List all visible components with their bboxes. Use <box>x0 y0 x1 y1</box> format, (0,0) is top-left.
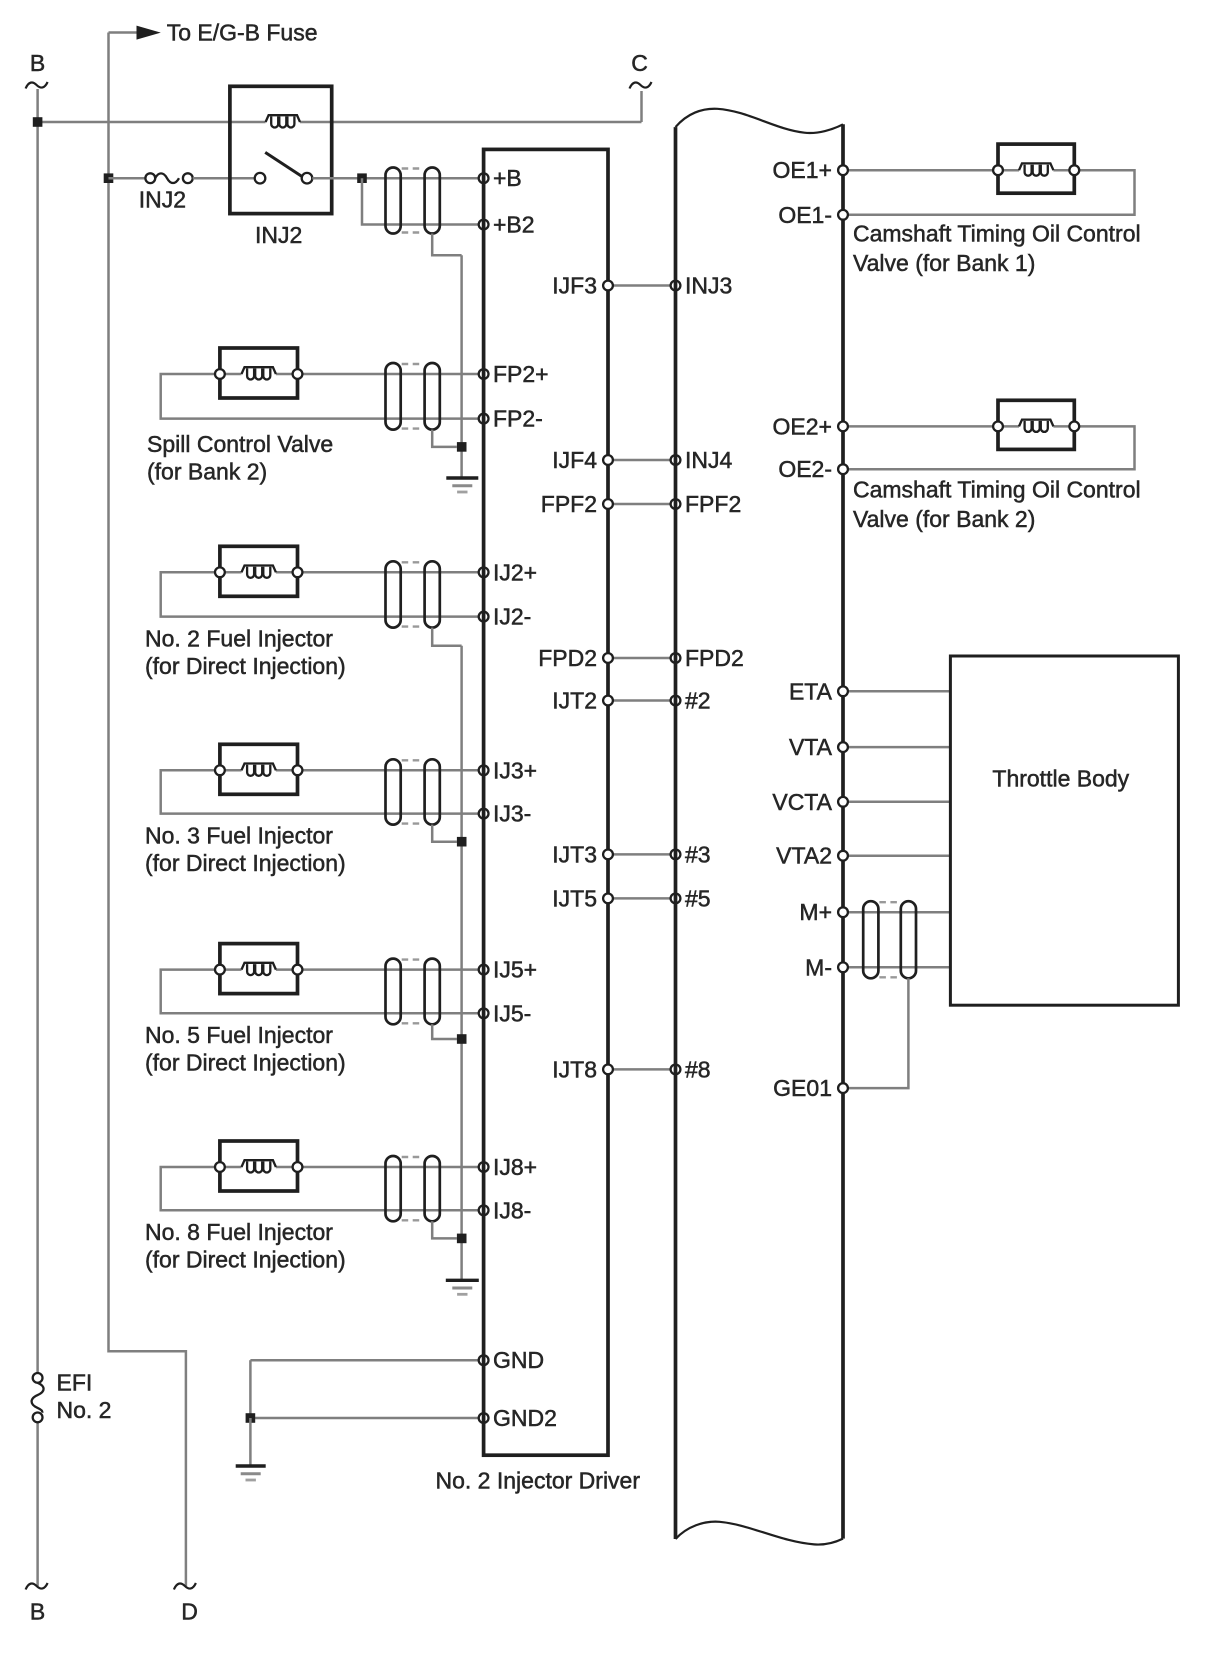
svg-text:B: B <box>30 50 45 76</box>
pin +B <box>479 173 489 183</box>
break symbol C <box>630 82 652 89</box>
injector 3 terminal left <box>215 765 225 775</box>
shield bus to ground 2 <box>460 646 463 1281</box>
wire IJT2 to #2 <box>608 699 676 702</box>
svg-text:VCTA: VCTA <box>772 789 832 815</box>
fuse INJ2 <box>145 173 192 183</box>
svg-text:#8: #8 <box>685 1056 711 1082</box>
wire GND2 <box>250 1417 481 1420</box>
svg-text:No. 8 Fuel Injector: No. 8 Fuel Injector <box>145 1219 333 1245</box>
svg-text:INJ4: INJ4 <box>685 447 733 473</box>
shield dashes <box>402 169 424 233</box>
wire injector 5 negative <box>161 970 479 1014</box>
wire B vertical (upper) <box>36 89 39 1373</box>
injector 5 terminal left <box>215 965 225 975</box>
junction dot shield IJ3 <box>457 837 467 847</box>
svg-text:(for Bank 2): (for Bank 2) <box>147 459 267 485</box>
svg-text:GE01: GE01 <box>773 1075 832 1101</box>
svg-text:IJ3-: IJ3- <box>493 801 531 827</box>
pin INJ4 (ECU) <box>671 455 681 465</box>
pin VCTA <box>838 797 848 807</box>
shield ovals IJ2 pair <box>386 561 440 627</box>
svg-text:(for Direct Injection): (for Direct Injection) <box>145 1247 346 1273</box>
wire main ignition feed (right) <box>300 121 642 124</box>
svg-text:ETA: ETA <box>789 678 833 704</box>
shield drain IJ2 pair <box>432 628 461 646</box>
svg-text:INJ3: INJ3 <box>685 273 732 299</box>
wire to E/G-B fuse and D <box>109 33 186 1587</box>
ground (GND/GND2) <box>236 1466 266 1480</box>
wire GND <box>250 1359 481 1362</box>
pin IJT8 <box>603 1065 613 1075</box>
svg-text:+B2: +B2 <box>493 212 535 238</box>
pin IJ5- <box>479 1008 489 1018</box>
spill valve coil <box>242 367 276 379</box>
pin GE01 <box>838 1083 848 1093</box>
break symbol B top <box>26 82 48 89</box>
svg-text:IJT3: IJT3 <box>552 841 597 867</box>
junction dot GND <box>246 1413 256 1423</box>
ground (injector shields) <box>446 1280 479 1294</box>
svg-text:FP2+: FP2+ <box>493 361 549 387</box>
pin GND2 <box>479 1413 489 1423</box>
pin #8 (ECU) <box>671 1065 681 1075</box>
svg-text:IJF4: IJF4 <box>552 447 597 473</box>
pin IJ8- <box>479 1205 489 1215</box>
pin IJ2- <box>479 612 489 622</box>
wire M- <box>843 966 950 969</box>
wire OE1+ <box>843 169 1019 172</box>
wire OE1- return <box>843 170 1135 215</box>
shield drain M pair to GE01 <box>848 978 908 1088</box>
shield bus to ground 1 <box>460 255 463 478</box>
wire IJT5 to #5 <box>608 897 676 900</box>
pin IJ2+ <box>479 567 489 577</box>
svg-text:#3: #3 <box>685 841 711 867</box>
svg-text:(for Direct Injection): (for Direct Injection) <box>145 850 346 876</box>
svg-text:M-: M- <box>805 954 832 980</box>
shield drain IJ5 pair <box>432 1024 457 1039</box>
shield dashes <box>402 364 424 429</box>
wire to +B2 <box>362 178 479 224</box>
shield ovals IJ3 pair <box>386 759 440 824</box>
wire GND down <box>249 1360 252 1418</box>
wire injector 8 interior left <box>220 1166 242 1169</box>
svg-text:VTA: VTA <box>789 734 833 760</box>
pin IJF4 <box>603 455 613 465</box>
pin IJF3 <box>603 281 613 291</box>
svg-text:(for Direct Injection): (for Direct Injection) <box>145 1050 346 1076</box>
svg-text:No. 2 Injector Driver: No. 2 Injector Driver <box>436 1467 641 1493</box>
shield dashes <box>402 960 424 1024</box>
valve 2 terminal right <box>1069 422 1079 432</box>
wire IJF3 to INJ3 <box>608 284 676 287</box>
injector 2 coil <box>242 566 276 578</box>
svg-text:Spill Control Valve: Spill Control Valve <box>147 431 333 457</box>
pin INJ3 (ECU) <box>671 281 681 291</box>
pin VTA2 <box>838 851 848 861</box>
wire injector 8 positive <box>276 1166 479 1169</box>
pin IJ5+ <box>479 965 489 975</box>
svg-text:OE1-: OE1- <box>778 202 832 228</box>
wire VTA2 <box>843 854 950 857</box>
svg-text:OE2-: OE2- <box>778 456 832 482</box>
valve 1 terminal left <box>993 165 1003 175</box>
injector 5 terminal right <box>293 965 303 975</box>
shield dashes <box>402 562 424 626</box>
svg-text:+B: +B <box>493 165 522 191</box>
svg-text:IJF3: IJF3 <box>552 273 597 299</box>
svg-text:Throttle Body: Throttle Body <box>992 766 1129 792</box>
svg-text:IJT2: IJT2 <box>552 688 597 714</box>
svg-text:FPD2: FPD2 <box>685 645 744 671</box>
wire FPF2 to FPF2 <box>608 503 676 506</box>
svg-text:INJ2: INJ2 <box>255 222 302 248</box>
junction dot +B branch <box>357 173 367 183</box>
relay switch contact right <box>302 173 313 184</box>
pin IJ3+ <box>479 765 489 775</box>
wire arrow stub <box>109 31 138 34</box>
svg-text:IJT5: IJT5 <box>552 885 597 911</box>
svg-text:INJ2: INJ2 <box>139 187 186 213</box>
pin FP2- <box>479 414 489 424</box>
wire C stub <box>640 91 643 122</box>
wire IJF4 to INJ4 <box>608 459 676 462</box>
svg-text:VTA2: VTA2 <box>776 843 832 869</box>
solenoid No. 3 Fuel Injector box <box>220 744 298 794</box>
wire injector 3 negative <box>161 770 479 813</box>
svg-text:(for Direct Injection): (for Direct Injection) <box>145 653 346 679</box>
pin VTA <box>838 742 848 752</box>
svg-text:EFI: EFI <box>57 1369 93 1395</box>
pin IJT5 <box>603 894 613 904</box>
wire injector 8 negative <box>161 1167 479 1210</box>
shield drain FP2 pair <box>432 430 457 447</box>
pin FPF2 (ECU) <box>671 499 681 509</box>
wire FPD2 to FPD2 <box>608 657 676 660</box>
svg-text:D: D <box>181 1599 198 1625</box>
wire to INJ2 fuse <box>109 177 146 180</box>
wire fuse to relay switch <box>193 177 255 180</box>
pin M+ <box>838 907 848 917</box>
wire spill valve negative <box>161 374 479 419</box>
pin ETA <box>838 686 848 696</box>
wire injector 3 interior left <box>220 769 242 772</box>
wire spill valve to FP2+ <box>276 373 479 376</box>
ECM left edge <box>674 127 678 1539</box>
svg-text:IJT8: IJT8 <box>552 1056 597 1082</box>
svg-text:Valve (for Bank 1): Valve (for Bank 1) <box>853 250 1035 276</box>
svg-text:No. 3 Fuel Injector: No. 3 Fuel Injector <box>145 822 333 848</box>
svg-text:Camshaft Timing Oil Control: Camshaft Timing Oil Control <box>853 220 1141 246</box>
break symbol D <box>174 1583 196 1590</box>
wire OE2- return <box>843 426 1135 469</box>
camshaft valve 2 coil <box>1019 420 1053 432</box>
svg-text:IJ8-: IJ8- <box>493 1197 531 1223</box>
svg-text:To E/G-B Fuse: To E/G-B Fuse <box>167 20 318 46</box>
svg-text:M+: M+ <box>799 899 832 925</box>
svg-text:IJ2-: IJ2- <box>493 604 531 630</box>
solenoid No. 5 Fuel Injector box <box>220 944 298 994</box>
junction dot shield IJ8 <box>457 1234 467 1244</box>
injector 2 terminal left <box>215 567 225 577</box>
svg-text:No. 2: No. 2 <box>57 1397 112 1423</box>
junction dot B feed <box>33 117 43 127</box>
pin #3 (ECU) <box>671 850 681 860</box>
pin OE2- <box>838 464 848 474</box>
solenoid Camshaft Timing Oil Control Valve (Bank 1) box <box>998 144 1074 193</box>
svg-text:Valve (for Bank 2): Valve (for Bank 2) <box>853 506 1035 532</box>
svg-text:B: B <box>30 1599 45 1625</box>
svg-text:FPF2: FPF2 <box>685 491 741 517</box>
shield dashes <box>402 1157 424 1220</box>
wire valve 2 interior right <box>1053 425 1074 428</box>
pin GND <box>479 1355 489 1365</box>
injector 2 terminal right <box>293 567 303 577</box>
solenoid No. 2 Fuel Injector box <box>220 546 298 596</box>
solenoid Spill Control Valve box <box>220 348 298 398</box>
relay switch contact left <box>255 173 266 184</box>
svg-text:No. 2 Fuel Injector: No. 2 Fuel Injector <box>145 625 333 651</box>
wire to chassis ground <box>249 1418 252 1466</box>
shield drain IJ3 pair <box>432 825 457 842</box>
solenoid Camshaft Timing Oil Control Valve (Bank 2) box <box>998 400 1074 449</box>
break symbol B bottom <box>26 1583 48 1590</box>
spill valve terminal left <box>215 369 225 379</box>
shield ovals M pair <box>863 901 916 978</box>
shield ovals IJ5 pair <box>386 959 440 1025</box>
wire injector 3 positive <box>276 769 479 772</box>
injector 8 terminal left <box>215 1162 225 1172</box>
svg-text:#2: #2 <box>685 688 711 714</box>
relay INJ2 box <box>230 86 332 213</box>
relay INJ2 switch blade <box>265 152 302 176</box>
wire IJT8 to #8 <box>608 1068 676 1071</box>
shield drain +B pair <box>432 234 461 256</box>
pin IJT3 <box>603 850 613 860</box>
shield dashes <box>402 760 424 823</box>
svg-text:GND: GND <box>493 1347 544 1373</box>
pin FPF2 <box>603 499 613 509</box>
pin IJ3- <box>479 809 489 819</box>
svg-text:FP2-: FP2- <box>493 406 543 432</box>
pin OE2+ <box>838 422 848 432</box>
svg-text:IJ3+: IJ3+ <box>493 757 537 783</box>
wire OE2+ <box>843 425 1019 428</box>
injector 3 terminal right <box>293 765 303 775</box>
wire injector 2 positive <box>276 571 479 574</box>
camshaft valve 1 coil <box>1019 163 1053 175</box>
wire main ignition feed (left) <box>38 121 266 124</box>
arrow head <box>137 26 161 40</box>
spill valve terminal right <box>293 369 303 379</box>
wire relay to +B <box>312 177 479 180</box>
pin #2 (ECU) <box>671 696 681 706</box>
ground (shield FP2/+B) <box>446 478 478 492</box>
pin M- <box>838 962 848 972</box>
shield ovals IJ8 pair <box>386 1156 440 1221</box>
svg-text:No. 5 Fuel Injector: No. 5 Fuel Injector <box>145 1022 333 1048</box>
ECM torn top edge <box>676 109 844 133</box>
pin FP2+ <box>479 369 489 379</box>
svg-text:IJ2+: IJ2+ <box>493 559 537 585</box>
relay INJ2 coil <box>266 115 300 127</box>
Throttle Body box <box>950 656 1178 1005</box>
svg-text:OE1+: OE1+ <box>773 157 832 183</box>
pin #5 (ECU) <box>671 894 681 904</box>
pin OE1- <box>838 210 848 220</box>
wire injector 5 positive <box>276 968 479 971</box>
wire valve 1 interior right <box>1053 169 1074 172</box>
wire VTA <box>843 746 950 749</box>
junction dot shield IJ5 <box>457 1034 467 1044</box>
valve 2 terminal left <box>993 422 1003 432</box>
injector 5 coil <box>242 963 276 975</box>
injector 8 coil <box>242 1160 276 1172</box>
svg-text:FPF2: FPF2 <box>541 491 597 517</box>
wire VCTA <box>843 801 950 804</box>
pin FPD2 (ECU) <box>671 653 681 663</box>
pin +B2 <box>479 220 489 230</box>
shield drain IJ8 pair <box>432 1221 457 1238</box>
svg-text:Camshaft Timing Oil Control: Camshaft Timing Oil Control <box>853 477 1141 503</box>
injector 8 terminal right <box>293 1162 303 1172</box>
wire injector 2 interior left <box>220 571 242 574</box>
svg-text:C: C <box>631 50 648 76</box>
fuse EFI No. 2 <box>32 1373 44 1422</box>
valve 1 terminal right <box>1069 165 1079 175</box>
wire ETA <box>843 690 950 693</box>
wire spill valve interior left <box>220 373 242 376</box>
solenoid No. 8 Fuel Injector box <box>220 1141 298 1191</box>
svg-text:OE2+: OE2+ <box>773 413 832 439</box>
wire injector 2 negative <box>161 572 479 616</box>
wire M+ <box>843 911 950 914</box>
wire IJT3 to #3 <box>608 853 676 856</box>
shield ovals FP2 pair <box>386 363 440 430</box>
svg-text:IJ5+: IJ5+ <box>493 957 537 983</box>
pin IJ8+ <box>479 1162 489 1172</box>
ECM right edge <box>841 124 845 1538</box>
wire injector 5 interior left <box>220 968 242 971</box>
pin FPD2 <box>603 653 613 663</box>
svg-text:IJ8+: IJ8+ <box>493 1154 537 1180</box>
svg-text:IJ5-: IJ5- <box>493 1000 531 1026</box>
svg-text:GND2: GND2 <box>493 1405 557 1431</box>
wire B vertical (lower) <box>36 1422 39 1586</box>
junction dot INJ2 branch <box>104 173 114 183</box>
injector 3 coil <box>242 764 276 776</box>
pin IJT2 <box>603 696 613 706</box>
shield dashes <box>879 902 899 977</box>
No. 2 Injector Driver box <box>484 149 608 1455</box>
svg-text:FPD2: FPD2 <box>538 645 597 671</box>
ECM torn bottom edge <box>676 1522 844 1545</box>
pin OE1+ <box>838 165 848 175</box>
svg-text:#5: #5 <box>685 885 711 911</box>
shield ovals +B pair <box>386 168 440 234</box>
junction dot shield FP2 <box>457 442 467 452</box>
